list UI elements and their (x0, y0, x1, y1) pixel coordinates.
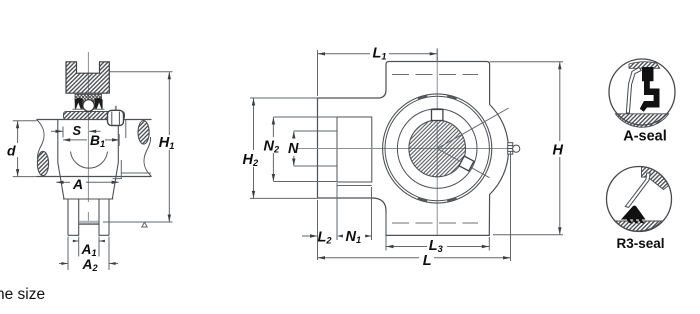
svg-text:H1: H1 (159, 135, 175, 151)
svg-text:L2: L2 (318, 230, 333, 246)
svg-text:L3: L3 (429, 238, 443, 254)
svg-text:S: S (73, 123, 82, 138)
svg-text:ne size: ne size (0, 286, 45, 303)
svg-text:H2: H2 (243, 152, 259, 168)
svg-text:L1: L1 (373, 46, 387, 62)
svg-text:H: H (553, 142, 564, 158)
svg-text:A: A (72, 176, 83, 192)
svg-text:L: L (423, 253, 432, 269)
svg-text:A-seal: A-seal (623, 129, 667, 145)
svg-text:R3-seal: R3-seal (616, 236, 664, 251)
svg-text:B1: B1 (90, 133, 105, 149)
svg-text:N2: N2 (264, 138, 280, 154)
svg-text:N: N (288, 141, 299, 157)
svg-text:N1: N1 (346, 229, 362, 245)
svg-text:A2: A2 (82, 257, 99, 273)
svg-text:A1: A1 (81, 242, 97, 258)
svg-text:d: d (7, 143, 16, 159)
